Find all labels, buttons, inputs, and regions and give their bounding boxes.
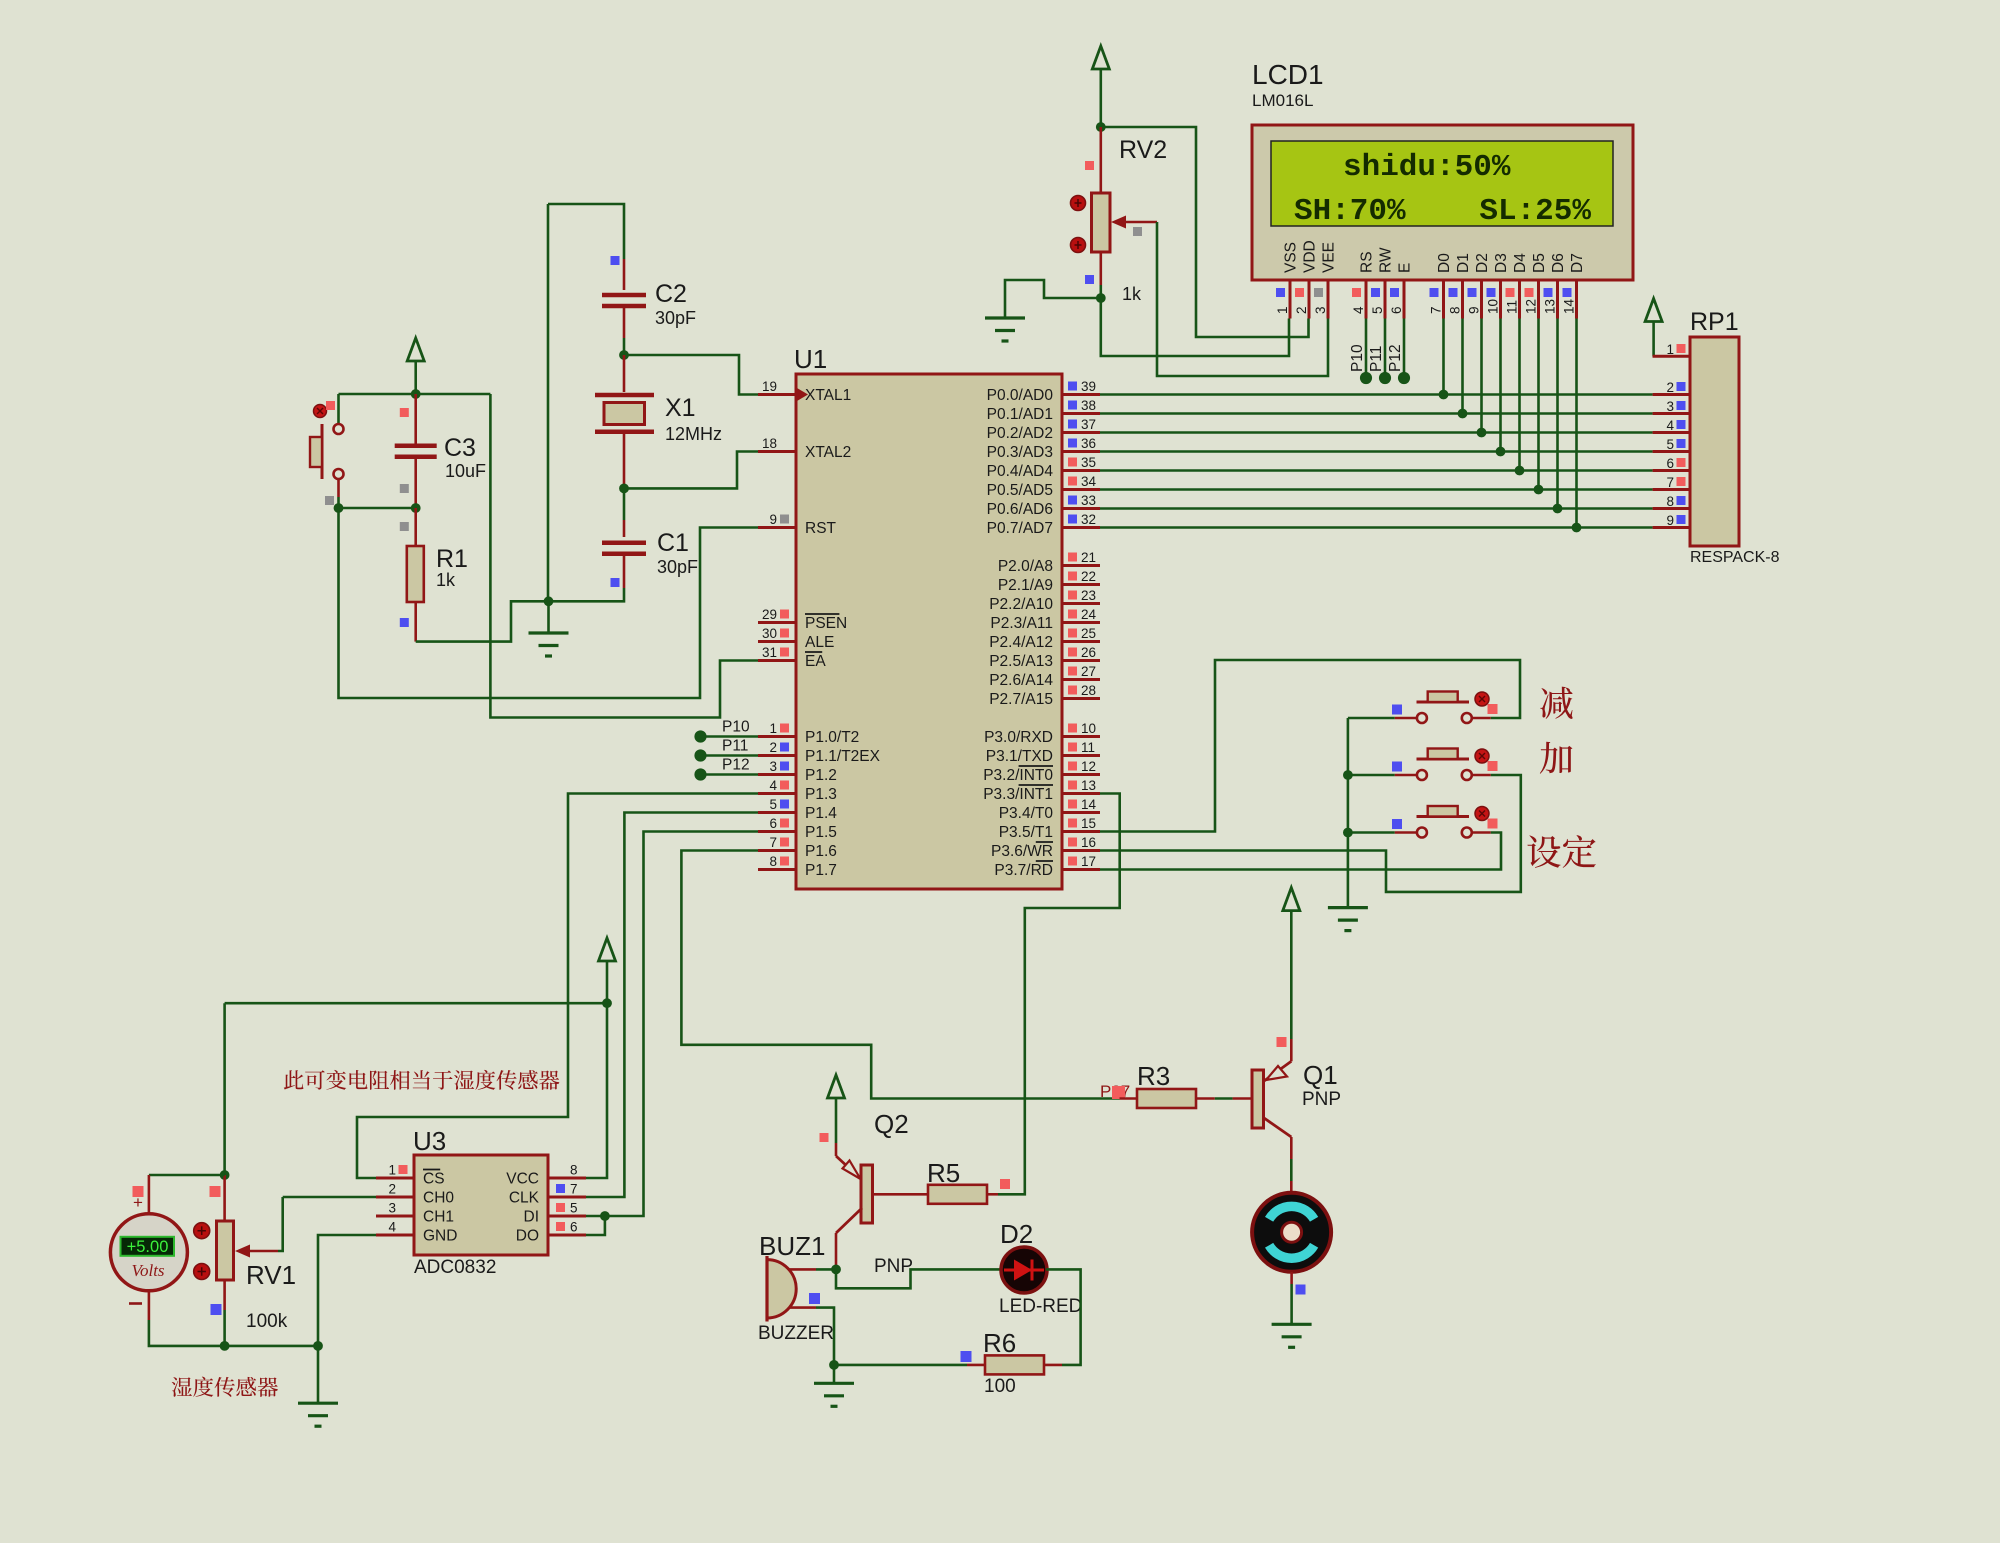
svg-text:Volts: Volts [131, 1261, 164, 1280]
RV2 bottom lead [1100, 252, 1103, 285]
wire U3 GND down [318, 1235, 376, 1346]
svg-text:6: 6 [1389, 306, 1404, 314]
junction [1096, 122, 1106, 132]
svg-text:7: 7 [1666, 475, 1674, 490]
RV2 top lead [1100, 127, 1103, 193]
wire [223, 1310, 226, 1346]
junction [1096, 293, 1106, 303]
U1 pin 2 P1.1/T2EX [758, 740, 881, 765]
svg-text:6: 6 [769, 816, 777, 831]
junction D4 [1515, 466, 1525, 476]
RV1 probe dot bottom [194, 1264, 210, 1280]
wire P0.3 bus [1100, 450, 1653, 453]
U3 pin 2 CH0 [376, 1182, 454, 1207]
op-amp U1 body (8051 MCU) [796, 374, 1062, 889]
svg-text:CH1: CH1 [423, 1209, 454, 1226]
power +5V (RV2) [1092, 46, 1109, 69]
label 减 (decrease) [1540, 687, 1572, 719]
svg-text:P1.0/T2: P1.0/T2 [805, 729, 859, 746]
svg-text:EA: EA [805, 653, 826, 670]
wire ground stem [547, 601, 550, 633]
svg-text:P3.4/T0: P3.4/T0 [999, 805, 1054, 822]
svg-text:29: 29 [762, 607, 777, 622]
LCD1 pin 13 D6 [1543, 253, 1568, 318]
wire [623, 488, 626, 520]
RP1 pin 7 [1653, 475, 1690, 490]
resistor R5 [928, 1185, 987, 1204]
junction [544, 596, 554, 606]
motor bottom lead [1290, 1272, 1293, 1284]
wire button3 to P3.7/RD [1100, 833, 1501, 870]
svg-text:11: 11 [1081, 740, 1095, 755]
wire DO join DI [586, 1216, 605, 1235]
svg-text:9: 9 [769, 512, 777, 527]
U1 pin 8 P1.7 [758, 854, 837, 879]
junction D0 [1439, 390, 1449, 400]
wire VCC up [586, 1003, 607, 1178]
svg-text:2: 2 [1666, 380, 1674, 395]
svg-text:14: 14 [1562, 298, 1577, 314]
svg-text:36: 36 [1081, 436, 1096, 451]
capacitor C1 plates [602, 543, 646, 554]
wire VCC node [339, 393, 491, 396]
C3 marker square gray [400, 484, 409, 493]
wire [623, 338, 626, 355]
wire P12 [701, 773, 759, 776]
svg-text:D0: D0 [1436, 253, 1453, 273]
ground (RV1) [298, 1403, 338, 1426]
junction [411, 503, 421, 513]
note text (this variable resistor acts as humidity sensor) [284, 1070, 560, 1090]
wire P0.6 bus [1100, 507, 1653, 510]
svg-text:12MHz: 12MHz [665, 424, 722, 444]
svg-text:E: E [1397, 263, 1414, 273]
U3 pin 8 VCC [506, 1163, 586, 1188]
U1 pin 35 P0.4/AD4 [987, 455, 1100, 480]
svg-text:PSEN: PSEN [805, 615, 847, 632]
svg-text:P3.7/RD: P3.7/RD [994, 862, 1053, 879]
svg-text:P3.5/T1: P3.5/T1 [999, 824, 1053, 841]
svg-text:P3.0/RXD: P3.0/RXD [984, 729, 1053, 746]
wire +5V to RV1 [225, 1002, 607, 1005]
svg-text:P12: P12 [722, 757, 750, 774]
wire [835, 1098, 838, 1143]
wire [549, 588, 625, 601]
svg-text:8: 8 [1666, 494, 1674, 509]
svg-text:P0.0/AD0: P0.0/AD0 [987, 387, 1054, 404]
motor M1 [1252, 1193, 1331, 1272]
svg-text:LCD1: LCD1 [1252, 59, 1324, 90]
C3 bottom lead [414, 457, 417, 508]
transistor Q1 (PNP) [1252, 1039, 1291, 1159]
svg-text:5: 5 [1666, 437, 1674, 452]
wire to ground [1005, 280, 1101, 318]
crystal X1 [595, 355, 654, 488]
U1 pin 12 P3.2/INT0 [983, 759, 1100, 784]
U1 pin 29 PSEN [758, 607, 847, 632]
resistor R1 [407, 546, 424, 602]
voltmeter instrument [110, 1214, 187, 1291]
wire to XTAL1 [624, 355, 758, 395]
wire +5V to LCD VDD [1101, 127, 1309, 337]
LCD display LCD1 body [1252, 125, 1633, 280]
svg-text:ADC0832: ADC0832 [414, 1257, 496, 1278]
svg-text:CH0: CH0 [423, 1190, 454, 1207]
junction [600, 1211, 610, 1221]
svg-text:21: 21 [1081, 550, 1096, 565]
U1 pin 23 P2.2/A10 [989, 588, 1100, 613]
svg-text:2: 2 [1294, 306, 1309, 314]
U1 pin 37 P0.2/AD2 [987, 417, 1100, 442]
U1 pin 6 P1.5 [758, 816, 837, 841]
U1 pin 7 P1.6 [758, 835, 837, 860]
svg-text:13: 13 [1543, 299, 1558, 314]
capacitor C2 plates [602, 295, 646, 306]
wire [1348, 831, 1395, 834]
node P12 terminal [694, 768, 706, 780]
svg-text:2: 2 [769, 740, 777, 755]
wire to LCD VSS [1101, 298, 1289, 356]
svg-text:ALE: ALE [805, 634, 834, 651]
svg-text:5: 5 [1370, 306, 1385, 314]
svg-text:7: 7 [570, 1182, 578, 1197]
svg-text:3: 3 [388, 1201, 396, 1216]
junction [313, 1341, 323, 1351]
wire [223, 1003, 226, 1175]
svg-text:P2.3/A11: P2.3/A11 [990, 615, 1053, 632]
wire P10 [701, 735, 759, 738]
LCD1 pin 1 VSS [1275, 242, 1300, 319]
R5 marker square red [1000, 1179, 1010, 1189]
node P11 terminal [1379, 372, 1391, 384]
resistor R3 [1137, 1089, 1196, 1108]
wire LCD D6 to P0.6 [1556, 319, 1559, 509]
wire LED to R6 [1046, 1269, 1081, 1365]
R6 marker square blue [961, 1351, 972, 1362]
U1 pin 10 P3.0/RXD [984, 721, 1100, 746]
R6 left lead [967, 1364, 985, 1367]
U1 pin 3 P1.2 [758, 759, 837, 784]
svg-text:33: 33 [1081, 493, 1096, 508]
U1 pin 33 P0.6/AD6 [987, 493, 1100, 518]
wire button2 to P3.6/WR [1100, 775, 1521, 892]
wire CH0 from RV1 wiper [283, 1196, 376, 1199]
svg-text:P0.4/AD4: P0.4/AD4 [987, 463, 1054, 480]
button marker square blue [1392, 762, 1402, 772]
svg-text:C1: C1 [657, 529, 689, 557]
button bottom lead [337, 479, 340, 497]
wire [606, 961, 609, 1003]
wire [1348, 774, 1395, 777]
C1 bottom marker square [611, 578, 620, 587]
svg-text:XTAL2: XTAL2 [805, 444, 851, 461]
svg-text:D5: D5 [1531, 253, 1548, 273]
wire vertical to ground [547, 204, 550, 601]
R6 right lead [1044, 1364, 1062, 1367]
wire CS to P1.3 [357, 794, 758, 1179]
svg-text:RV2: RV2 [1119, 136, 1167, 164]
wire LCD P12 [1403, 319, 1406, 379]
label 湿度传感器 (humidity sensor) [172, 1377, 278, 1397]
U1 pin 1 P1.0/T2 [758, 721, 859, 746]
svg-text:P1.7: P1.7 [805, 862, 837, 879]
wire LCD D4 to P0.4 [1518, 319, 1521, 471]
svg-text:C2: C2 [655, 280, 687, 308]
svg-text:10uF: 10uF [445, 461, 486, 481]
R5 right lead [987, 1193, 998, 1196]
svg-text:1: 1 [1275, 306, 1290, 314]
svg-text:DI: DI [524, 1209, 540, 1226]
svg-text:P10: P10 [722, 719, 750, 736]
wire [414, 361, 417, 394]
wire to RST pin [339, 508, 759, 698]
svg-text:LED-RED: LED-RED [999, 1296, 1082, 1317]
svg-text:18: 18 [762, 436, 777, 451]
push button jia (add) [1395, 749, 1491, 781]
wire [1348, 717, 1395, 720]
svg-text:1: 1 [769, 721, 777, 736]
button marker square gray [325, 496, 334, 505]
junction [1343, 828, 1353, 838]
C1 top lead [623, 520, 626, 537]
U3 pin 4 GND [376, 1220, 457, 1245]
svg-text:27: 27 [1081, 664, 1096, 679]
svg-text:SH:70%: SH:70% [1294, 194, 1406, 229]
wire P0.4 bus [1100, 469, 1653, 472]
svg-text:P0.6/AD6: P0.6/AD6 [987, 501, 1053, 518]
svg-text:28: 28 [1081, 683, 1096, 698]
svg-text:CLK: CLK [509, 1190, 540, 1207]
svg-text:37: 37 [1081, 417, 1096, 432]
RV1 top lead [223, 1175, 226, 1221]
junction D3 [1496, 447, 1506, 457]
LCD1 pin 4 RS [1351, 251, 1376, 318]
wire [1215, 1097, 1233, 1100]
svg-text:30pF: 30pF [655, 308, 696, 328]
U1 pin 24 P2.3/A11 [990, 607, 1100, 632]
svg-text:U1: U1 [794, 344, 827, 374]
svg-text:6: 6 [570, 1220, 578, 1235]
wire LCD P11 [1384, 319, 1387, 379]
wire R5 to P3.3/INT1 [998, 794, 1120, 1195]
svg-text:8: 8 [1448, 306, 1463, 314]
svg-text:P1.4: P1.4 [805, 805, 837, 822]
svg-text:RP1: RP1 [1690, 308, 1739, 336]
svg-text:P12: P12 [1387, 344, 1404, 372]
svg-text:P1.1/T2EX: P1.1/T2EX [805, 748, 881, 765]
wire LCD D1 to P0.1 [1461, 319, 1464, 414]
junction D1 [1458, 409, 1468, 419]
svg-text:4: 4 [1666, 418, 1674, 433]
push button (reset) [310, 405, 344, 480]
RV1 marker square blue [211, 1304, 222, 1315]
junction D6 [1553, 504, 1563, 514]
C3 top lead [414, 394, 417, 446]
wire [834, 1364, 967, 1367]
svg-text:P0.1/AD1: P0.1/AD1 [987, 406, 1053, 423]
wire ground stem [317, 1346, 320, 1403]
resistor R6 [985, 1355, 1044, 1374]
svg-text:31: 31 [762, 645, 777, 660]
svg-text:1: 1 [1666, 342, 1674, 357]
svg-text:R6: R6 [983, 1328, 1016, 1358]
svg-text:PNP: PNP [1302, 1089, 1341, 1110]
wire buttons common to ground [1347, 718, 1350, 908]
svg-text:10: 10 [1486, 299, 1501, 314]
U1 pin 36 P0.3/AD3 [987, 436, 1100, 461]
wire button1 to P3.5/T1 [1100, 660, 1520, 832]
svg-text:shidu:50%: shidu:50% [1343, 150, 1511, 185]
svg-text:VCC: VCC [506, 1171, 539, 1188]
svg-text:P2.0/A8: P2.0/A8 [998, 558, 1053, 575]
svg-text:14: 14 [1081, 797, 1097, 812]
junction [619, 484, 629, 494]
LCD1 pin 5 RW [1370, 247, 1395, 318]
ground (buzzer) [814, 1383, 854, 1406]
C3 marker square red [400, 408, 409, 417]
svg-text:1k: 1k [436, 570, 456, 590]
power +5V (Q1) [1283, 888, 1300, 911]
LCD1 pin 14 D7 [1562, 253, 1587, 318]
voltmeter top lead [148, 1175, 151, 1214]
capacitor C3 [395, 446, 437, 457]
voltmeter marker square red [133, 1186, 144, 1197]
power +5V (Q2) [828, 1075, 845, 1098]
power +5V (RP1) [1645, 299, 1662, 322]
svg-text:RW: RW [1378, 247, 1395, 273]
node P11 terminal [694, 749, 706, 761]
LCD1 green screen [1271, 141, 1613, 226]
BUZ1 marker square blue [809, 1293, 820, 1304]
svg-text:D1: D1 [1455, 253, 1472, 273]
wire C2 top [548, 204, 624, 259]
svg-text:C3: C3 [444, 434, 476, 462]
junction D5 [1534, 485, 1544, 495]
LCD1 pin 2 VDD [1294, 240, 1319, 318]
U1 pin 27 P2.6/A14 [989, 664, 1100, 689]
wire voltmeter + [149, 1174, 225, 1177]
svg-text:9: 9 [1467, 306, 1482, 314]
P37 marker square red [1112, 1086, 1125, 1099]
wire P0.2 bus [1100, 431, 1653, 434]
svg-text:CS: CS [423, 1171, 445, 1188]
svg-text:19: 19 [762, 379, 777, 394]
junction [831, 1265, 841, 1275]
svg-text:P1.3: P1.3 [805, 786, 837, 803]
wire [1290, 1159, 1293, 1181]
marker square gray [400, 522, 409, 531]
junction D2 [1477, 428, 1487, 438]
svg-text:7: 7 [1429, 306, 1444, 314]
svg-text:RESPACK-8: RESPACK-8 [1690, 549, 1780, 566]
buzzer BUZ1 [767, 1256, 816, 1322]
wire [1290, 1284, 1293, 1324]
svg-text:P1.5: P1.5 [805, 824, 837, 841]
svg-text:30pF: 30pF [657, 557, 698, 577]
Q2 marker square red [820, 1133, 829, 1142]
svg-text:RV1: RV1 [246, 1260, 296, 1290]
svg-text:P1.6: P1.6 [805, 843, 837, 860]
LED D2 (LED-RED) [1001, 1247, 1047, 1293]
wire DI/DO to P1.5 [605, 832, 758, 1217]
C2 top lead [623, 259, 626, 290]
svg-text:23: 23 [1081, 588, 1096, 603]
junction D7 [1572, 523, 1582, 533]
junction [220, 1170, 230, 1180]
motor marker square blue [1296, 1285, 1306, 1295]
C1 bottom lead [623, 554, 626, 588]
potentiometer RV1 [217, 1221, 234, 1280]
wire wiper to LCD VEE [1157, 222, 1328, 376]
svg-text:P1.2: P1.2 [805, 767, 837, 784]
svg-text:4: 4 [769, 778, 777, 793]
svg-text:RST: RST [805, 520, 837, 537]
RP1 pin 2 [1653, 380, 1690, 395]
RP1 pin 6 [1653, 456, 1690, 471]
wire to RP1 pin1 [1653, 322, 1654, 357]
label 设定 (set) [1527, 835, 1595, 868]
svg-text:P2.4/A12: P2.4/A12 [989, 634, 1053, 651]
svg-text:P2.1/A9: P2.1/A9 [998, 577, 1053, 594]
junction [1343, 770, 1353, 780]
svg-text:2: 2 [388, 1182, 396, 1197]
wire LCD D2 to P0.2 [1480, 319, 1483, 433]
wire CLK to P1.4 [586, 813, 758, 1198]
RV2 probe dot bottom [1071, 238, 1086, 253]
LCD1 pin 6 E [1389, 263, 1414, 319]
svg-text:3: 3 [769, 759, 777, 774]
svg-text:7: 7 [769, 835, 777, 850]
C2 bottom lead [623, 306, 626, 338]
svg-text:P2.6/A14: P2.6/A14 [989, 672, 1053, 689]
ground (motor) [1272, 1324, 1312, 1347]
svg-text:13: 13 [1081, 778, 1096, 793]
svg-text:3: 3 [1313, 306, 1328, 314]
svg-text:4: 4 [1351, 306, 1366, 314]
wire LCD D5 to P0.5 [1537, 319, 1540, 490]
U1 pin 11 P3.1/TXD [986, 740, 1100, 765]
U3 pin 7 CLK [509, 1182, 586, 1207]
ground (crystal) [529, 633, 569, 656]
U1 pin 16 P3.6/WR [991, 835, 1100, 860]
RV1 marker square red [210, 1186, 221, 1197]
C2 top marker square [611, 256, 620, 265]
svg-text:XTAL1: XTAL1 [805, 387, 851, 404]
transistor Q2 (PNP) [836, 1143, 928, 1269]
U1 pin 22 P2.1/A9 [998, 569, 1100, 594]
RP1 pin 5 [1653, 437, 1690, 452]
power +5V (reset) [407, 338, 424, 361]
RV1 bottom lead [223, 1280, 226, 1310]
svg-text:PNP: PNP [874, 1256, 913, 1277]
wire to button [337, 394, 340, 424]
junction [334, 503, 344, 513]
svg-text:30: 30 [762, 626, 777, 641]
wire [339, 507, 416, 510]
junction [411, 389, 421, 399]
U1 pin 9 RST [758, 512, 837, 537]
wire buzzer bottom [816, 1308, 834, 1365]
svg-text:D3: D3 [1493, 253, 1510, 273]
svg-text:R3: R3 [1137, 1061, 1170, 1091]
wire DI [586, 1215, 605, 1218]
svg-text:11: 11 [1505, 300, 1520, 314]
svg-text:BUZZER: BUZZER [758, 1323, 834, 1344]
U3 pin 6 DO [516, 1220, 586, 1245]
wire P1.6 to R3 [681, 851, 1119, 1099]
wire LCD D0 to P0.0 [1442, 319, 1445, 395]
svg-text:GND: GND [423, 1228, 457, 1245]
